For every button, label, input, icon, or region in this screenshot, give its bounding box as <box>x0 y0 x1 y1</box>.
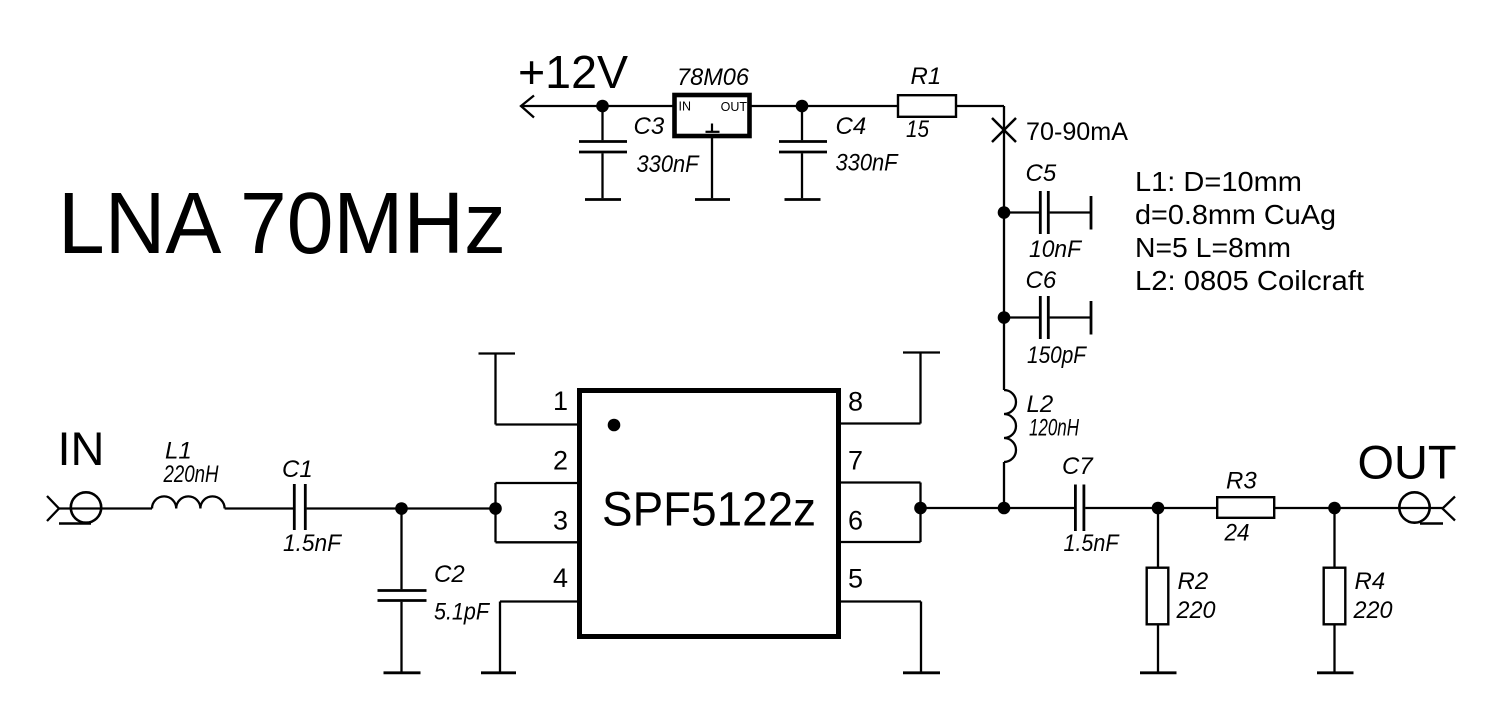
svg-text:1: 1 <box>553 386 568 416</box>
note text block coil data <box>1135 166 1364 296</box>
svg-text:6: 6 <box>848 506 863 536</box>
svg-text:OUT: OUT <box>721 100 748 114</box>
IC U2 SPF5122z body <box>580 391 839 637</box>
svg-text:5.1pF: 5.1pF <box>434 599 490 626</box>
wire R3 to output connector <box>1275 507 1443 509</box>
input connector circle J1 <box>71 492 101 522</box>
ground below R2 <box>1140 671 1177 674</box>
svg-text:R2: R2 <box>1178 568 1209 595</box>
IC pin-1 marker dot <box>608 419 621 432</box>
node junction dot at R4 <box>1328 502 1341 515</box>
svg-text:C6: C6 <box>1026 267 1057 294</box>
svg-text:C4: C4 <box>836 113 867 140</box>
ground below 78M06 <box>695 198 730 201</box>
svg-text:SPF5122z: SPF5122z <box>602 484 816 537</box>
svg-text:d=0.8mm CuAg: d=0.8mm CuAg <box>1135 199 1336 230</box>
capacitor C1 <box>294 484 305 530</box>
output connector circle J2 <box>1399 492 1429 522</box>
output connector arrow <box>1443 497 1456 521</box>
ground below pin 5 <box>903 671 940 674</box>
capacitor C7 <box>1075 485 1084 532</box>
svg-text:N=5 L=8mm: N=5 L=8mm <box>1135 232 1291 263</box>
node junction dot at L2 output <box>998 502 1011 515</box>
resistor R1 <box>898 95 956 117</box>
svg-text:R1: R1 <box>911 63 942 90</box>
node junction dot at C2 <box>395 502 408 515</box>
svg-text:120nH: 120nH <box>1029 415 1079 442</box>
wire pin 1 to top bar <box>496 354 580 425</box>
svg-text:10nF: 10nF <box>1029 236 1082 263</box>
inductor L1 <box>152 496 225 508</box>
svg-text:R3: R3 <box>1226 468 1257 495</box>
capacitor C4 <box>779 106 827 198</box>
svg-text:C2: C2 <box>434 561 465 588</box>
svg-text:15: 15 <box>906 116 930 143</box>
node junction dot at pins 7-6 <box>914 502 927 515</box>
current measurement X mark 70-90mA <box>992 118 1016 142</box>
wire input to L1 <box>59 507 152 509</box>
output connector underline <box>1420 522 1443 524</box>
resistor R2 <box>1147 508 1169 672</box>
node junction dot at C3 <box>596 100 609 113</box>
inductor L2 <box>1004 390 1016 462</box>
svg-text:L1: D=10mm: L1: D=10mm <box>1135 166 1302 197</box>
svg-text:150pF: 150pF <box>1027 342 1087 369</box>
svg-text:78M06: 78M06 <box>677 64 750 91</box>
node junction dot at R2 <box>1152 502 1165 515</box>
ground pin symbol inside 78M06 <box>706 124 720 132</box>
capacitor C3 <box>579 106 627 198</box>
ground below C4 <box>785 198 821 201</box>
wire vertical feed from R1 down to output node <box>1003 106 1005 508</box>
svg-text:OUT: OUT <box>1358 436 1457 489</box>
svg-text:+12V: +12V <box>518 46 628 98</box>
svg-text:7: 7 <box>848 446 863 476</box>
svg-text:C7: C7 <box>1062 453 1094 480</box>
wire pin 4 to ground <box>500 602 579 672</box>
svg-text:C1: C1 <box>282 456 313 483</box>
svg-text:220nH: 220nH <box>163 461 219 488</box>
svg-text:2: 2 <box>553 446 568 476</box>
resistor R4 <box>1324 508 1346 672</box>
wire pin 8 to top bar <box>839 353 921 424</box>
ground below R4 <box>1317 671 1354 674</box>
svg-text:220: 220 <box>1353 597 1394 624</box>
svg-text:C3: C3 <box>634 113 665 140</box>
svg-text:330nF: 330nF <box>637 151 700 178</box>
node junction dot at C6 <box>998 311 1011 324</box>
svg-text:IN: IN <box>58 422 105 475</box>
svg-text:IN: IN <box>679 100 692 114</box>
node junction dot at C5 <box>998 206 1011 219</box>
svg-text:220: 220 <box>1176 597 1217 624</box>
wire +12V rail <box>521 105 1004 107</box>
svg-text:1.5nF: 1.5nF <box>1064 530 1120 557</box>
ground bar right of C5 <box>1090 196 1093 230</box>
node junction dot at C4 <box>796 100 809 113</box>
node junction dot at pins 2-3 <box>489 502 502 515</box>
svg-text:8: 8 <box>848 387 863 417</box>
wire bracket pins 7-6 <box>839 483 921 543</box>
ground below pin 4 <box>481 671 516 674</box>
wire pin 5 to ground <box>839 602 922 672</box>
ground below C3 <box>585 198 621 201</box>
ground bar above pin 1 <box>479 352 516 354</box>
svg-text:1.5nF: 1.5nF <box>283 530 342 557</box>
wire L1 to C1 <box>225 507 293 509</box>
input connector arrow <box>47 496 59 521</box>
wire output node to C7 <box>921 507 1075 509</box>
svg-text:24: 24 <box>1224 520 1250 547</box>
capacitor C5 <box>1004 191 1090 234</box>
wire C1 to IC input node <box>307 507 496 509</box>
wire bracket pins 2-3 <box>496 483 580 542</box>
resistor R3 <box>1217 497 1274 518</box>
capacitor C2 <box>378 509 427 672</box>
ground bar above pin 8 <box>903 351 940 353</box>
regulator U1 78M06 box <box>675 95 750 136</box>
wire C7 to R3 <box>1085 507 1216 509</box>
svg-text:4: 4 <box>553 563 568 593</box>
svg-text:R4: R4 <box>1355 568 1386 595</box>
input connector underline <box>59 522 91 524</box>
capacitor C6 <box>1004 296 1090 339</box>
ground bar right of C6 <box>1090 301 1093 335</box>
ground below C2 <box>384 671 421 674</box>
wire 78M06 ground pin <box>711 138 713 198</box>
svg-text:5: 5 <box>848 564 863 594</box>
svg-text:LNA 70MHz: LNA 70MHz <box>58 175 506 272</box>
+12V supply arrow <box>521 96 534 118</box>
svg-text:L2: 0805 Coilcraft: L2: 0805 Coilcraft <box>1135 265 1364 296</box>
svg-text:C5: C5 <box>1026 160 1057 187</box>
svg-text:3: 3 <box>553 506 568 536</box>
svg-text:330nF: 330nF <box>836 150 899 177</box>
svg-text:70-90mA: 70-90mA <box>1026 118 1128 146</box>
